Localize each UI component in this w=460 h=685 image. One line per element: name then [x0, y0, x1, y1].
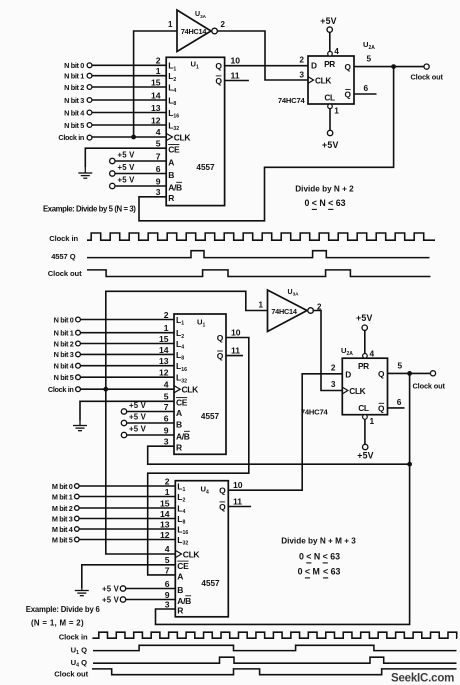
svg-text:2: 2: [299, 55, 304, 65]
svg-text:2: 2: [156, 56, 161, 66]
junction U2A Q / feedback (bottom): [407, 371, 412, 376]
inverter U3A-top output bubble: [212, 28, 218, 34]
+5V terminal at U1 B (top): [110, 163, 136, 176]
wire U2A Q pin 5 to Clock out: [354, 66, 424, 68]
svg-text:7: 7: [164, 402, 169, 412]
svg-text:74HC14: 74HC14: [271, 307, 297, 316]
wire feedback U2A Q to U1 R pin 3: [139, 67, 394, 221]
svg-text:13: 13: [159, 356, 169, 366]
svg-text:4557: 4557: [201, 579, 220, 588]
svg-text:74HC74: 74HC74: [278, 96, 306, 105]
U2A-top PR bubble: [328, 51, 333, 56]
svg-text:N bit 2: N bit 2: [64, 83, 84, 92]
inverter U3A-top 74HC14 triangle: [177, 10, 211, 52]
svg-text:5: 5: [165, 555, 170, 565]
svg-text:13: 13: [160, 519, 170, 529]
wire +5V to U2A CL pin 1 (bottom): [364, 419, 366, 444]
U1-bot CLK input wedge: [174, 386, 180, 393]
+5V terminal at U1 A/B (bottom): [121, 425, 146, 438]
svg-text:CL: CL: [324, 92, 335, 102]
svg-text:Q: Q: [215, 76, 222, 86]
+5V terminal at U1 A/B (top): [110, 176, 136, 189]
svg-text:4: 4: [164, 379, 169, 389]
svg-text:3: 3: [331, 379, 336, 389]
wire U1 Q pin 10 to U4 A pin 7 (bottom): [148, 338, 249, 575]
terminal N bit 1: [87, 73, 92, 78]
svg-text:+5 V: +5 V: [118, 163, 136, 172]
svg-text:3: 3: [156, 187, 161, 197]
+5V terminal at U2A CL (bottom): [357, 444, 374, 460]
svg-text:3: 3: [165, 599, 170, 609]
wire U3A output to U2A CLK pin 3 (bottom): [313, 311, 343, 391]
wire N bit 3 to U1 L pin (bottom): [80, 353, 174, 355]
wire +5V to U1 A (bottom): [126, 411, 174, 413]
wire M bit 3 to U4 L pin: [79, 518, 175, 520]
svg-text:<: <: [323, 552, 328, 562]
inverter U3A-bot 74HC14 triangle: [268, 290, 308, 332]
svg-text:+5V: +5V: [357, 451, 374, 461]
svg-text:PR: PR: [324, 59, 335, 69]
waveform Clock out (top): [87, 270, 431, 277]
svg-text:12: 12: [151, 115, 161, 125]
terminal N bit 3 (bottom): [76, 352, 81, 357]
svg-text:N bit 3: N bit 3: [64, 96, 84, 105]
+5V terminal at U1 A (bottom): [121, 401, 146, 414]
svg-text:CLK: CLK: [174, 133, 192, 143]
svg-text:2: 2: [331, 363, 336, 373]
svg-text:+5 V: +5 V: [129, 413, 147, 422]
ground at U1 CE (bottom): [73, 421, 87, 431]
svg-text:Q: Q: [345, 89, 352, 99]
waveform U1 Q: [93, 645, 457, 650]
svg-text:1: 1: [168, 20, 173, 29]
wire N bit 0 to U1 L pin (bottom): [80, 319, 174, 321]
svg-text:CLK: CLK: [182, 385, 200, 395]
wire U1 CE pin 5 to ground: [85, 148, 166, 167]
flip-flop U2A-bot 74HC74 outline: [342, 358, 387, 415]
svg-text:5: 5: [164, 392, 169, 402]
+5V terminal at U4 B: [102, 584, 126, 593]
svg-text:N bit 5: N bit 5: [64, 121, 84, 130]
svg-text:CLK: CLK: [315, 76, 331, 86]
svg-text:Clock out: Clock out: [48, 269, 82, 278]
svg-text:CL: CL: [358, 403, 369, 413]
svg-text:R: R: [176, 443, 182, 453]
svg-text:N bit 1: N bit 1: [64, 72, 84, 81]
wire N bit 4 to U1 L pin (bottom): [80, 365, 174, 367]
svg-text:M bit 0: M bit 0: [52, 482, 73, 491]
svg-text:15: 15: [151, 77, 161, 87]
waveform 4557 Q: [87, 251, 430, 258]
stub U2A Qbar pin 6 (bottom): [388, 407, 405, 409]
wire +5V to U2A PR pin 4: [329, 32, 331, 52]
svg-text:74HC74: 74HC74: [301, 408, 329, 417]
svg-text:+5 V: +5 V: [129, 401, 147, 410]
IC U4 4557 outline: [175, 481, 228, 617]
U2A-top CLK input wedge: [308, 77, 314, 84]
svg-text:0: 0: [304, 198, 309, 208]
wire U3A input from Clock in (bottom): [106, 291, 268, 389]
+5V terminal at U2A PR (top): [320, 16, 337, 32]
svg-text:5: 5: [156, 139, 161, 149]
wire U4 Q pin 10 to U2A D pin 2: [228, 374, 342, 490]
wire N bit 3 to U1 L pin: [92, 99, 166, 101]
svg-text:R: R: [168, 193, 174, 203]
svg-text:13: 13: [151, 103, 161, 113]
wire Clock in down to U4 CLK pin 4: [106, 389, 176, 554]
wire +5V to U1 A: [115, 160, 167, 162]
terminal Clock out (bottom): [430, 371, 435, 376]
svg-text:A: A: [176, 408, 182, 418]
svg-text:M: M: [313, 567, 320, 577]
svg-text:1: 1: [334, 106, 339, 116]
svg-text:+5 V: +5 V: [118, 176, 136, 185]
svg-text:(N = 1, M = 2): (N = 1, M = 2): [31, 618, 84, 627]
waveform U4 Q: [93, 657, 457, 663]
wire M bit 2 to U4 L pin: [79, 507, 175, 509]
wire Clock in to U1 CLK (bottom): [80, 388, 174, 390]
wire +5V to U2A PR pin 4 (bottom): [364, 330, 366, 353]
wire M bit 4 to U4 L pin: [79, 528, 175, 530]
svg-text:Clock out: Clock out: [54, 669, 88, 678]
ground at U1 CE (top): [78, 167, 92, 178]
wire +5V to U1 B (bottom): [126, 422, 174, 424]
svg-text:63: 63: [331, 567, 341, 577]
svg-text:3: 3: [164, 437, 169, 447]
inverter U3A-bot output bubble: [308, 308, 314, 314]
svg-text:Clock out: Clock out: [411, 73, 444, 82]
svg-text:CLK: CLK: [349, 386, 365, 396]
svg-text:A: A: [168, 157, 174, 167]
svg-text:6: 6: [165, 579, 170, 589]
svg-text:U4 Q: U4 Q: [71, 658, 87, 669]
wire N bit 2 to U1 L pin: [92, 86, 166, 88]
svg-text:B: B: [177, 585, 183, 595]
svg-text:Clock in: Clock in: [49, 234, 78, 243]
waveform Clock in (top): [87, 233, 435, 240]
waveform Clock out (bottom): [92, 669, 457, 675]
svg-text:PR: PR: [358, 361, 369, 371]
junction U2A Q / feedback (top): [391, 64, 396, 69]
wire N bit 0 to U1 L pin: [92, 64, 166, 66]
svg-text:4: 4: [156, 127, 161, 137]
wire U3A output to U2A CLK pin 3: [217, 31, 308, 80]
svg-text:15: 15: [159, 334, 169, 344]
svg-text:N: N: [319, 198, 325, 208]
wire M bit 1 to U4 L pin: [79, 496, 175, 498]
svg-text:A/B: A/B: [168, 182, 182, 192]
ground at U4 CE: [75, 588, 89, 596]
U2A-bot CLK input wedge: [342, 387, 348, 394]
svg-text:M bit 4: M bit 4: [52, 525, 74, 534]
svg-text:0: 0: [299, 552, 304, 562]
svg-text:2: 2: [164, 310, 169, 320]
svg-text:N bit 1: N bit 1: [54, 329, 74, 338]
svg-text:Clock out: Clock out: [413, 381, 446, 390]
U2A-bot PR bubble: [363, 354, 368, 359]
svg-text:6: 6: [397, 397, 402, 407]
stub U2A Qbar pin 6: [354, 93, 377, 95]
svg-text:4557 Q: 4557 Q: [51, 252, 76, 261]
svg-text:Q: Q: [345, 62, 352, 72]
svg-text:10: 10: [233, 480, 243, 490]
svg-text:1: 1: [259, 301, 264, 310]
svg-text:Divide by N + M + 3: Divide by N + M + 3: [281, 537, 356, 546]
wire +5V to U4 B: [125, 588, 175, 590]
terminal M bit 2: [75, 506, 80, 511]
svg-text:N bit 0: N bit 0: [54, 315, 74, 324]
terminal N bit 1 (bottom): [76, 330, 81, 335]
wire +5V to U1 A/B (bottom): [126, 434, 174, 436]
svg-text:Example: Divide by 5 (N = 3): Example: Divide by 5 (N = 3): [43, 205, 136, 214]
wire +5V to U2A CL pin 1: [329, 109, 331, 131]
svg-text:9: 9: [164, 425, 169, 435]
terminal M bit 3: [75, 516, 80, 521]
label range 0<=N<=63 (bottom): [299, 552, 340, 563]
svg-text:1: 1: [370, 416, 375, 426]
svg-text:N bit 0: N bit 0: [64, 61, 84, 70]
svg-text:Q: Q: [217, 333, 224, 343]
terminal N bit 0 (bottom): [76, 317, 81, 322]
svg-text:63: 63: [330, 552, 340, 562]
svg-text:Clock in: Clock in: [59, 633, 88, 642]
wire N bit 4 to U1 L pin: [92, 112, 166, 114]
terminal M bit 4: [75, 527, 80, 532]
terminal N bit 2: [87, 85, 92, 90]
svg-text:N bit 3: N bit 3: [54, 350, 74, 359]
svg-text:2: 2: [221, 20, 226, 29]
svg-text:14: 14: [160, 509, 170, 519]
svg-text:11: 11: [231, 345, 240, 355]
wire M bit 0 to U4 L pin: [79, 485, 175, 487]
svg-text:14: 14: [151, 90, 161, 100]
+5V terminal at U1 A (top): [110, 151, 136, 164]
svg-text:SeekIC.com: SeekIC.com: [391, 672, 454, 684]
svg-text:<: <: [323, 567, 328, 577]
wire +5V to U4 A/B: [125, 599, 175, 601]
svg-text:63: 63: [336, 198, 346, 208]
wire N bit 5 to U1 L pin (bottom): [80, 376, 174, 378]
wire +5V to U1 B: [115, 173, 167, 175]
+5V terminal at U2A PR (bottom): [356, 313, 373, 330]
terminal N bit 4: [87, 110, 92, 115]
terminal M bit 1: [75, 494, 80, 499]
svg-text:+5 V: +5 V: [102, 595, 120, 604]
terminal N bit 2 (bottom): [76, 341, 81, 346]
svg-text:1: 1: [156, 66, 161, 76]
terminal M bit 0: [75, 484, 80, 489]
svg-text:N bit 2: N bit 2: [54, 339, 74, 348]
label range 0<=N<=63 (top): [304, 198, 345, 209]
svg-text:N bit 5: N bit 5: [54, 373, 74, 382]
svg-text:10: 10: [231, 328, 241, 338]
IC U1-top 4557 outline: [166, 57, 224, 205]
svg-text:Clock in: Clock in: [48, 385, 74, 394]
flip-flop U2A-top 74HC74 outline: [308, 56, 354, 104]
svg-text:N bit 4: N bit 4: [64, 108, 85, 117]
svg-text:R: R: [177, 605, 183, 615]
junction Clock in / U3A input / U4 CLK (bottom): [103, 387, 108, 392]
svg-text:4: 4: [334, 46, 339, 56]
svg-text:M bit 5: M bit 5: [52, 535, 73, 544]
svg-text:Clock in: Clock in: [58, 133, 84, 142]
stub U4 Qbar pin 11: [228, 506, 251, 508]
svg-text:A/B: A/B: [177, 596, 191, 606]
svg-text:5: 5: [398, 361, 403, 371]
svg-text:U1 Q: U1 Q: [71, 646, 87, 657]
svg-text:4: 4: [165, 544, 170, 554]
svg-text:7: 7: [156, 151, 161, 161]
svg-text:Q: Q: [378, 403, 385, 413]
wire N bit 1 to U1 L pin: [92, 75, 166, 77]
svg-text:<: <: [306, 552, 311, 562]
terminal N bit 0: [87, 63, 92, 68]
terminal N bit 3: [87, 98, 92, 103]
svg-text:4557: 4557: [196, 163, 215, 172]
svg-text:10: 10: [231, 56, 241, 66]
wire U2A Q pin 5 to Clock out (bottom): [388, 372, 431, 374]
svg-text:B: B: [168, 170, 174, 180]
svg-text:CLK: CLK: [183, 550, 201, 560]
svg-text:M bit 2: M bit 2: [52, 504, 73, 513]
wire U1 Q pin 10 to U2A D pin 2: [225, 65, 308, 67]
svg-text:5: 5: [367, 54, 372, 64]
wire N bit 1 to U1 L pin (bottom): [80, 332, 174, 334]
svg-text:+5V: +5V: [320, 16, 337, 26]
svg-text:D: D: [345, 369, 351, 379]
terminal N bit 4 (bottom): [76, 363, 81, 368]
svg-text:11: 11: [231, 70, 240, 80]
wire U3A input from Clock in: [134, 31, 177, 137]
svg-text:6: 6: [156, 164, 161, 174]
wire M bit 5 to U4 L pin: [79, 539, 175, 541]
U2A-bot CL bubble: [363, 415, 368, 420]
svg-text:1: 1: [164, 323, 169, 333]
svg-text:2: 2: [165, 476, 170, 486]
wire N bit 5 to U1 L pin: [92, 124, 166, 126]
svg-text:Example: Divide by 6: Example: Divide by 6: [26, 605, 101, 614]
waveform Clock in (bottom): [92, 632, 457, 638]
svg-text:Q: Q: [219, 502, 226, 512]
svg-text:<: <: [312, 198, 317, 208]
svg-text:+5V: +5V: [356, 313, 373, 323]
svg-text:N: N: [314, 552, 320, 562]
svg-text:CE: CE: [168, 145, 180, 155]
svg-text:Divide by N + 2: Divide by N + 2: [295, 185, 354, 194]
svg-text:N bit 4: N bit 4: [54, 362, 75, 371]
svg-text:4: 4: [370, 349, 375, 359]
svg-text:Q: Q: [217, 351, 224, 361]
svg-text:B: B: [176, 419, 182, 429]
svg-text:12: 12: [160, 530, 170, 540]
svg-text:A: A: [177, 571, 183, 581]
svg-text:+5V: +5V: [322, 140, 339, 150]
svg-text:M bit 1: M bit 1: [52, 492, 73, 501]
label range 0<=M<=63 (bottom): [298, 567, 341, 578]
svg-text:Q: Q: [219, 486, 226, 496]
svg-text:+5 V: +5 V: [102, 584, 120, 593]
+5V terminal at U1 B (bottom): [121, 413, 146, 426]
wire Clock in to U1 CLK pin 4: [92, 136, 166, 138]
terminal Clock out (top): [424, 64, 429, 69]
+5V terminal at U4 A/B: [102, 595, 126, 604]
svg-text:A/B: A/B: [176, 431, 190, 441]
svg-text:Q: Q: [378, 369, 385, 379]
svg-text:74HC14: 74HC14: [181, 27, 207, 36]
wire U1 CE to ground (bottom): [80, 401, 174, 420]
terminal Clock in (bottom): [76, 387, 81, 392]
svg-text:11: 11: [233, 496, 242, 506]
+5V terminal at U2A CL (top): [322, 130, 339, 150]
terminal N bit 5: [87, 123, 92, 128]
terminal Clock in (top): [87, 135, 92, 140]
svg-text:M bit 3: M bit 3: [52, 514, 73, 523]
U1-top CLK input wedge: [166, 133, 172, 140]
svg-text:+5 V: +5 V: [129, 425, 147, 434]
svg-text:15: 15: [160, 498, 170, 508]
U2A-top CL bubble: [328, 104, 333, 109]
terminal M bit 5: [75, 537, 80, 542]
svg-text:12: 12: [159, 368, 169, 378]
svg-text:14: 14: [159, 345, 169, 355]
svg-text:4557: 4557: [201, 412, 220, 421]
stub U1 Qbar pin 11 (bottom): [226, 355, 243, 357]
junction Clock in / U3A input: [131, 135, 136, 140]
svg-text:6: 6: [364, 83, 369, 93]
svg-text:<: <: [328, 198, 333, 208]
svg-text:7: 7: [165, 565, 170, 575]
wire feedback U2A Q to U1 R (bottom): [148, 446, 410, 464]
svg-text:0: 0: [298, 567, 303, 577]
stub U1 Qbar pin 11: [225, 80, 249, 82]
wire N bit 2 to U1 L pin (bottom): [80, 343, 174, 345]
U4 CLK input wedge: [175, 550, 181, 557]
svg-text:+5 V: +5 V: [118, 151, 136, 160]
svg-text:D: D: [311, 61, 317, 71]
wire +5V to U1 A/B: [115, 185, 167, 187]
svg-text:Q: Q: [215, 61, 222, 71]
junction feedback U1 R / U4 R (bottom): [407, 462, 412, 467]
svg-text:6: 6: [164, 413, 169, 423]
svg-text:1: 1: [165, 487, 170, 497]
svg-text:<: <: [305, 567, 310, 577]
terminal N bit 5 (bottom): [76, 375, 81, 380]
svg-text:9: 9: [156, 176, 161, 186]
svg-text:CE: CE: [177, 561, 189, 571]
svg-text:CE: CE: [176, 398, 188, 408]
svg-text:3: 3: [299, 70, 304, 80]
IC U1-bot 4557 outline: [174, 314, 226, 454]
wire U4 CE pin 5 to ground: [82, 565, 176, 588]
wire feedback U2A Q down to U4 R: [156, 373, 410, 624]
svg-text:9: 9: [165, 590, 170, 600]
